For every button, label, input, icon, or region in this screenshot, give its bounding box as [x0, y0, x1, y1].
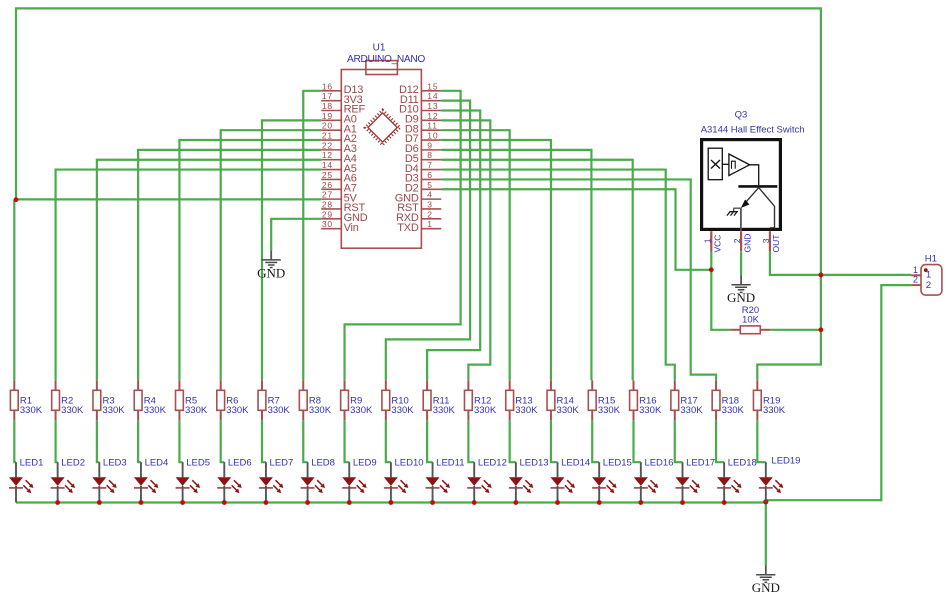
svg-text:10: 10 [427, 131, 438, 141]
svg-text:GND: GND [727, 290, 755, 305]
LED LED8 [301, 457, 335, 502]
wire R6 to LED6 [221, 420, 225, 462]
LED LED13 [509, 457, 549, 502]
ground GND under U1 [270, 250, 272, 260]
pin 5 D2 (U1 right) [405, 180, 441, 195]
pin 25 A6 (U1 left) [321, 170, 357, 185]
svg-text:16: 16 [322, 81, 333, 91]
svg-text:TXD: TXD [397, 222, 419, 234]
svg-text:LED3: LED3 [103, 457, 127, 468]
resistor R1 330K [10, 380, 42, 420]
wire 5V down to R1 [13, 200, 15, 381]
wire A3 to R4 [138, 150, 321, 380]
resistor R12 330K [464, 380, 496, 420]
svg-text:330K: 330K [309, 405, 332, 416]
wire R5 to LED5 [179, 420, 182, 462]
pin 12 D9 (U1 right) [405, 111, 441, 126]
svg-text:H1: H1 [925, 253, 937, 264]
junction OUT net [819, 273, 824, 278]
resistor R18 330K [712, 380, 744, 420]
wire D5 to R16 [441, 160, 632, 381]
LED LED7 [259, 457, 293, 502]
svg-text:330K: 330K [639, 405, 662, 416]
junction LED13 cathode [513, 500, 518, 505]
pin 29 GND (U1 left) [321, 209, 368, 224]
wire Q3 OUT to H1 pin 1 [770, 252, 911, 275]
svg-text:330K: 330K [185, 405, 208, 416]
pin 15 D12 (U1 right) [399, 81, 441, 96]
wire 5V up left edge, across top, down right, to R19 top [16, 8, 821, 380]
svg-text:2: 2 [732, 238, 742, 243]
junction LED8 cathode [305, 500, 310, 505]
resistor R4 330K [134, 380, 166, 420]
svg-text:3: 3 [761, 238, 771, 243]
wire 5V from pin 27 to left edge [16, 198, 321, 200]
wire D9 to R12 [441, 120, 490, 380]
pin 14 D11 (U1 right) [400, 91, 441, 106]
svg-text:29: 29 [322, 209, 333, 219]
svg-text:8: 8 [427, 150, 433, 160]
svg-text:330K: 330K [515, 405, 538, 416]
wire LED cathode rail [16, 501, 766, 503]
wire R9 to LED9 [345, 420, 350, 462]
svg-text:LED12: LED12 [478, 457, 507, 468]
wire A5 to R2 [56, 170, 322, 381]
resistor R8 330K [299, 380, 331, 420]
pin 11 D8 (U1 right) [405, 121, 441, 136]
junction LED18 cathode [722, 500, 727, 505]
pin 16 D13 (U1 left) [321, 81, 363, 96]
pin 30 Vin (U1 left) [321, 219, 359, 234]
svg-text:330K: 330K [20, 405, 43, 416]
wire R18 to LED18 [716, 420, 724, 462]
pin 7 D4 (U1 right) [405, 160, 441, 175]
LED LED17 [675, 457, 715, 502]
svg-text:Vin: Vin [344, 222, 359, 234]
svg-text:LED11: LED11 [436, 457, 464, 468]
svg-text:27: 27 [322, 190, 333, 200]
pin 2 (H1) [911, 275, 931, 291]
svg-text:6: 6 [427, 170, 433, 180]
svg-text:28: 28 [322, 199, 333, 209]
svg-text:5: 5 [427, 180, 433, 190]
junction LED3 cathode [97, 500, 102, 505]
pin 1 TXD (U1 right) [397, 219, 441, 234]
junction D2/VCC/R20 [709, 267, 714, 272]
resistor R5 330K [176, 380, 208, 420]
svg-text:330K: 330K [144, 405, 167, 416]
LED LED18 [717, 457, 757, 502]
svg-text:3: 3 [427, 199, 433, 209]
wire R2 to LED2 [56, 420, 58, 462]
LED LED15 [592, 457, 632, 502]
pin 8 D5 (U1 right) [405, 150, 441, 165]
svg-text:LED8: LED8 [311, 457, 335, 468]
junction LED16 cathode [638, 500, 643, 505]
resistor R2 330K [52, 380, 84, 420]
svg-text:330K: 330K [350, 405, 373, 416]
LED LED2 [51, 457, 85, 502]
svg-text:330K: 330K [268, 405, 291, 416]
svg-text:2: 2 [427, 209, 433, 219]
svg-text:GND: GND [752, 580, 780, 595]
svg-text:26: 26 [322, 180, 333, 190]
wire R15 to LED15 [592, 420, 599, 462]
svg-text:9: 9 [427, 140, 433, 150]
svg-text:OUT: OUT [771, 235, 781, 253]
wire Q3 VCC pin down to R20 left [711, 252, 730, 330]
LED LED6 [217, 457, 251, 502]
resistor R19 330K [753, 380, 785, 420]
svg-text:330K: 330K [474, 405, 497, 416]
svg-text:LED1: LED1 [20, 457, 44, 468]
pin 19 A0 (U1 left) [321, 111, 357, 126]
pin 2 RXD (U1 right) [396, 209, 441, 224]
svg-text:330K: 330K [557, 405, 580, 416]
junction LED9 cathode [347, 500, 352, 505]
wire H1 pin 2 to LED cathode rail [766, 285, 911, 500]
junction LED15 cathode [597, 500, 602, 505]
U1 chip glyph [365, 110, 400, 145]
LED LED14 [551, 457, 591, 502]
ground GND below LED rail [765, 565, 767, 575]
wire R14 to LED14 [551, 420, 558, 462]
svg-text:15: 15 [427, 81, 438, 91]
wire D10 to R11 [427, 110, 480, 380]
resistor R3 330K [93, 380, 125, 420]
pin 3 OUT (Q3) [761, 231, 781, 252]
svg-text:20: 20 [322, 121, 333, 131]
pin 28 RST (U1 left) [321, 199, 365, 214]
wire R8 to LED8 [303, 420, 307, 462]
LED LED10 [384, 457, 424, 502]
junction LED6 cathode [222, 500, 227, 505]
wire R4 to LED4 [138, 420, 141, 462]
pin 6 D3 (U1 right) [405, 170, 441, 185]
svg-text:Q3: Q3 [735, 109, 748, 120]
wire D12 to R9 [345, 91, 461, 381]
resistor R20 10K [730, 305, 770, 333]
svg-text:330K: 330K [102, 405, 125, 416]
LED LED12 [467, 457, 507, 502]
svg-text:LED7: LED7 [270, 457, 294, 468]
ground GND under Q3 [740, 275, 742, 285]
wire R11 to LED11 [427, 420, 432, 462]
svg-text:21: 21 [322, 131, 333, 141]
wire R16 to LED16 [634, 420, 641, 462]
junction LED17 cathode [680, 500, 685, 505]
junction LED4 cathode [139, 500, 144, 505]
wire R10 to LED10 [386, 420, 391, 462]
svg-text:LED15: LED15 [603, 457, 632, 468]
pin 1 VCC (Q3) [702, 231, 722, 252]
svg-text:330K: 330K [226, 405, 249, 416]
pin 12 A4 (U1 left) [321, 150, 357, 165]
junction LED14 cathode [555, 500, 560, 505]
junction 5V/R1 [14, 197, 19, 202]
wire R1 to LED1 [14, 420, 16, 462]
svg-text:VCC: VCC [713, 235, 723, 253]
svg-text:14: 14 [427, 91, 438, 101]
pin 3 RST (U1 right) [397, 199, 441, 214]
svg-text:330K: 330K [763, 405, 786, 416]
wire R20 right to OUT vertical [770, 329, 821, 331]
svg-text:330K: 330K [722, 405, 745, 416]
pin 10 D7 (U1 right) [405, 131, 441, 146]
wire R17 to LED17 [675, 420, 683, 462]
pin 26 A7 (U1 left) [321, 180, 357, 195]
wire R12 to LED12 [468, 420, 474, 462]
svg-text:GND: GND [257, 265, 285, 280]
pin 4 GND (U1 right) [395, 190, 442, 205]
resistor R13 330K [506, 380, 538, 420]
junction LED5 cathode [180, 500, 185, 505]
pin 9 D6 (U1 right) [405, 140, 441, 155]
resistor R15 330K [588, 380, 620, 420]
pin 22 A3 (U1 left) [321, 140, 357, 155]
svg-text:LED6: LED6 [228, 457, 252, 468]
wire rail down to GND [765, 500, 767, 565]
svg-text:330K: 330K [680, 405, 703, 416]
svg-text:12: 12 [322, 150, 333, 160]
wire D8 to R13 [441, 130, 509, 380]
svg-text:25: 25 [322, 170, 333, 180]
LED LED5 [176, 457, 210, 502]
wire R7 to LED7 [262, 420, 266, 462]
svg-text:14: 14 [322, 160, 333, 170]
svg-text:12: 12 [427, 111, 438, 121]
wire A2 to R5 [179, 140, 321, 380]
junction LED12 cathode [472, 500, 477, 505]
pin 27 5V (U1 left) [321, 190, 357, 205]
wire D13 to R8 [303, 91, 321, 381]
pin 20 A1 (U1 left) [321, 121, 357, 136]
svg-text:LED4: LED4 [145, 457, 169, 468]
wire D11 to R10 [386, 101, 470, 381]
pin 2 GND (Q3) [732, 231, 752, 252]
junction LED11 cathode [430, 500, 435, 505]
wire A0 to R7 [262, 120, 321, 380]
wire D7 to R14 [441, 140, 551, 380]
wire R13 to LED13 [510, 420, 516, 462]
svg-text:4: 4 [427, 190, 433, 200]
junction LED19 cathode [763, 499, 768, 504]
wire A1 to R6 [221, 130, 322, 380]
svg-text:19: 19 [322, 111, 333, 121]
svg-text:LED19: LED19 [771, 455, 800, 466]
resistor R9 330K [341, 380, 373, 420]
LED LED16 [634, 457, 674, 502]
svg-text:LED10: LED10 [395, 457, 424, 468]
junction LED2 cathode [55, 500, 60, 505]
svg-text:U1: U1 [373, 43, 386, 54]
wire D4 to R17 [441, 170, 674, 381]
pin 21 A2 (U1 left) [321, 131, 357, 146]
resistor R7 330K [258, 380, 290, 420]
wire R3 to LED3 [97, 420, 99, 462]
wire R19 to LED19 [757, 420, 765, 462]
svg-text:13: 13 [427, 101, 438, 111]
junction LED7 cathode [264, 500, 269, 505]
svg-text:7: 7 [427, 160, 433, 170]
svg-text:LED9: LED9 [353, 457, 377, 468]
svg-text:LED17: LED17 [686, 457, 715, 468]
wire D2 to Q3 VCC [441, 189, 711, 270]
pin 18 REF (U1 left) [321, 101, 365, 116]
svg-text:30: 30 [322, 219, 333, 229]
LED LED1 [9, 457, 43, 502]
svg-text:LED18: LED18 [728, 457, 757, 468]
svg-text:LED5: LED5 [186, 457, 210, 468]
connector H1 body [921, 265, 942, 296]
svg-text:22: 22 [322, 140, 333, 150]
svg-text:10K: 10K [742, 315, 760, 326]
pin 14 A5 (U1 left) [321, 160, 357, 175]
resistor R6 330K [217, 380, 249, 420]
svg-text:17: 17 [322, 91, 333, 101]
op-amp U1 ARDUINO_NANO body [341, 61, 421, 249]
svg-text:330K: 330K [391, 405, 414, 416]
resistor R10 330K [382, 380, 414, 420]
resistor R11 330K [423, 380, 455, 420]
LED LED11 [426, 457, 465, 502]
svg-text:330K: 330K [61, 405, 84, 416]
resistor R17 330K [671, 380, 703, 420]
LED LED9 [342, 457, 376, 502]
svg-text:LED14: LED14 [561, 457, 590, 468]
svg-text:LED13: LED13 [519, 457, 548, 468]
LED LED3 [92, 457, 126, 502]
svg-text:1: 1 [913, 265, 918, 275]
svg-text:ARDUINO_NANO: ARDUINO_NANO [347, 54, 425, 65]
svg-text:330K: 330K [598, 405, 621, 416]
wire A4 to R3 [97, 160, 321, 381]
junction R20/OUT [819, 327, 824, 332]
wire D3 to R18 [441, 179, 716, 380]
resistor R16 330K [630, 380, 662, 420]
LED LED19 [759, 455, 801, 502]
svg-text:LED2: LED2 [61, 457, 85, 468]
svg-text:1: 1 [427, 219, 433, 229]
svg-text:1: 1 [702, 238, 712, 243]
junction LED10 cathode [389, 500, 394, 505]
pin 17 3V3 (U1 left) [321, 91, 362, 106]
svg-text:GND: GND [742, 234, 752, 253]
svg-text:2: 2 [926, 280, 931, 291]
svg-text:330K: 330K [433, 405, 456, 416]
svg-text:A3144 Hall Effect Switch: A3144 Hall Effect Switch [701, 124, 805, 135]
svg-text:LED16: LED16 [644, 457, 673, 468]
LED LED4 [134, 457, 168, 502]
wire GND pin 29 down [271, 219, 321, 250]
wire D6 to R15 [441, 150, 591, 380]
svg-text:18: 18 [322, 101, 333, 111]
pin 1 (H1) [911, 265, 931, 281]
resistor R14 330K [547, 380, 579, 420]
wire Q3 GND pin down [740, 252, 742, 275]
pin 13 D10 (U1 right) [399, 101, 441, 116]
svg-text:2: 2 [913, 275, 918, 285]
transistor Q3 A3144 Hall Effect Switch body [702, 140, 781, 231]
svg-text:11: 11 [427, 121, 437, 131]
